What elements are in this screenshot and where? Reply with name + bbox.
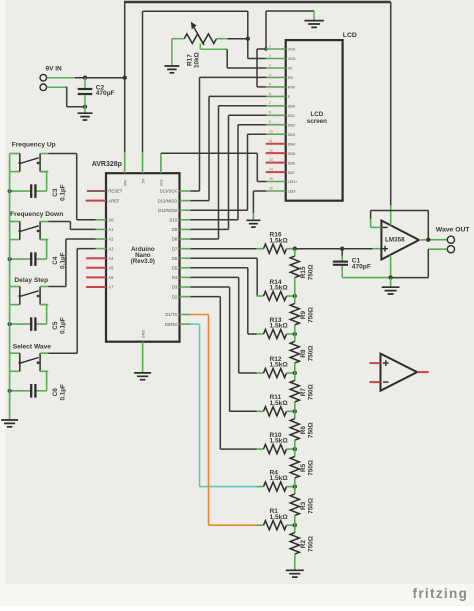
svg-text:A0: A0 <box>108 218 114 223</box>
wire R2 to ground <box>294 563 296 570</box>
svg-text:1.5kΩ: 1.5kΩ <box>270 400 289 407</box>
U1 pin 3V3 <box>160 153 164 186</box>
ground opamp <box>382 278 400 294</box>
wire Wave OUT ground return <box>391 249 448 277</box>
op-amp U2B (unused) <box>381 354 418 391</box>
svg-text:DB7: DB7 <box>288 171 295 175</box>
svg-text:D9: D9 <box>172 227 178 232</box>
LCD pin 13 DB6 <box>266 158 295 165</box>
U1 pin D1/TX <box>165 312 190 317</box>
svg-text:LM358: LM358 <box>385 237 405 244</box>
junction R12/rail <box>293 371 297 375</box>
svg-text:R8: R8 <box>300 349 307 358</box>
svg-text:A7: A7 <box>108 285 114 290</box>
U1 pin RESET <box>87 189 123 194</box>
svg-text:D13/SCK: D13/SCK <box>160 189 178 194</box>
wire S1 to A0 <box>48 154 95 220</box>
U1 pin D9 <box>172 227 190 232</box>
U1 pin D7 <box>172 246 190 251</box>
U2B pin 7 (n/c) <box>417 371 429 373</box>
svg-text:AVR328p: AVR328p <box>92 161 122 168</box>
capacitor C1 470pF <box>333 249 371 278</box>
LCD pin 16 LED- <box>266 186 297 193</box>
resistor R1 1.5k <box>257 508 295 530</box>
LCD pin 12 DB5 <box>266 149 295 156</box>
svg-text:E: E <box>288 95 291 99</box>
ground U1 <box>134 373 151 380</box>
resistor R5 750 <box>290 449 314 487</box>
svg-text:LED+: LED+ <box>288 180 298 184</box>
wire D10 to LCD DB2 <box>190 125 266 220</box>
svg-text:750Ω: 750Ω <box>308 498 315 514</box>
wire D6 to R14 <box>190 258 257 296</box>
wire LCD VSS to ground <box>266 11 314 49</box>
svg-text:0.1µF: 0.1µF <box>59 384 66 401</box>
svg-text:16: 16 <box>269 186 273 190</box>
wire D2 to R10 <box>190 297 256 450</box>
junction R11/rail <box>293 409 297 413</box>
wire 9V+ to VIN rail <box>47 77 125 79</box>
svg-text:DB3: DB3 <box>288 133 295 137</box>
svg-text:R6: R6 <box>300 426 307 435</box>
ground button rail <box>1 420 18 427</box>
svg-text:D4: D4 <box>172 275 178 280</box>
wire D12 to LCD E <box>190 96 266 200</box>
resistor R14 1.5k <box>257 279 295 301</box>
junction R4/rail <box>293 484 297 488</box>
U1 pin D2 <box>172 294 190 299</box>
U1 pin A2 <box>96 237 114 242</box>
svg-text:750Ω: 750Ω <box>308 422 315 438</box>
pushbutton S3 Delay Step <box>10 277 49 305</box>
junction R10/rail <box>293 447 297 451</box>
junction 5V/R17 <box>246 37 250 41</box>
svg-text:Wave OUT: Wave OUT <box>436 226 471 233</box>
svg-text:3V3: 3V3 <box>160 180 164 187</box>
wire S2 to A1 <box>48 222 95 230</box>
resistor R3 750 <box>290 487 314 526</box>
svg-text:2: 2 <box>269 54 271 58</box>
svg-text:R2: R2 <box>300 540 307 549</box>
U1 pin D8 <box>172 237 190 242</box>
LCD pin 11 DB4 <box>266 139 295 146</box>
potentiometer R17 10k <box>172 22 248 68</box>
junction R14/rail <box>293 294 297 298</box>
wire feedback loop <box>371 211 429 240</box>
capacitor C5 0.1uF <box>10 305 67 334</box>
svg-text:D0/RX: D0/RX <box>165 322 178 327</box>
svg-text:DB4: DB4 <box>288 142 295 146</box>
svg-text:fritzing: fritzing <box>413 586 469 601</box>
capacitor C4 0.1uF <box>10 240 67 269</box>
resistor R7 750 <box>290 373 314 411</box>
svg-text:10kΩ: 10kΩ <box>193 52 200 68</box>
svg-text:14: 14 <box>269 168 273 172</box>
junction 9V+/C2 <box>83 76 87 80</box>
svg-text:D7: D7 <box>172 246 178 251</box>
wire VSS / RW tie <box>257 49 266 87</box>
svg-text:Frequency Down: Frequency Down <box>10 211 63 218</box>
svg-text:1.5kΩ: 1.5kΩ <box>270 438 289 445</box>
resistor R15 750 <box>290 249 314 296</box>
U1 pin D12/MISO <box>158 198 191 203</box>
LCD pin 8 DB1 <box>266 111 295 118</box>
svg-text:RS: RS <box>288 76 294 80</box>
svg-text:470µF: 470µF <box>96 90 115 97</box>
svg-text:750Ω: 750Ω <box>308 307 315 323</box>
svg-text:1.5kΩ: 1.5kΩ <box>270 285 289 292</box>
svg-text:5: 5 <box>269 82 271 86</box>
resistor R6 750 <box>290 411 314 449</box>
junction R16/rail <box>293 247 297 251</box>
svg-text:VIN: VIN <box>124 180 128 187</box>
wire opamp V+ pin <box>390 205 392 226</box>
resistor R9 750 <box>290 296 314 334</box>
svg-text:13: 13 <box>269 158 273 162</box>
svg-text:750Ω: 750Ω <box>308 384 315 400</box>
svg-text:R9: R9 <box>300 310 307 319</box>
svg-text:C3: C3 <box>52 188 59 197</box>
ground R17 <box>164 39 179 73</box>
svg-text:750Ω: 750Ω <box>308 460 315 476</box>
svg-text:A2: A2 <box>108 237 114 242</box>
LCD pin 7 DB0 <box>266 101 295 108</box>
svg-text:AREF: AREF <box>108 198 120 203</box>
svg-text:R15: R15 <box>300 266 307 278</box>
resistor R10 1.5k <box>257 432 295 454</box>
svg-text:DB2: DB2 <box>288 123 295 127</box>
svg-text:5V: 5V <box>141 178 145 183</box>
resistor R2 750 <box>290 525 314 563</box>
svg-text:Delay Step: Delay Step <box>14 277 48 284</box>
wire LCD LED- to ground <box>253 191 266 220</box>
svg-text:7: 7 <box>269 101 271 105</box>
resistor R16 1.5k <box>257 232 295 254</box>
svg-text:DB6: DB6 <box>288 161 295 165</box>
svg-text:1.5kΩ: 1.5kΩ <box>270 514 289 521</box>
pushbutton S4 Select Wave <box>10 343 52 371</box>
junction 9V+/VIN <box>123 76 127 80</box>
svg-text:D11/MOSI: D11/MOSI <box>158 208 177 213</box>
svg-text:R7: R7 <box>300 388 307 397</box>
svg-text:750Ω: 750Ω <box>308 264 315 280</box>
LCD pin 3 V0 <box>266 63 293 70</box>
LCD pin 1 VSS <box>266 44 296 51</box>
svg-text:C4: C4 <box>52 256 59 265</box>
svg-text:9V IN: 9V IN <box>46 65 63 72</box>
wire DAC output row <box>295 248 342 250</box>
junction R13/rail <box>293 332 297 336</box>
svg-text:3: 3 <box>269 63 271 67</box>
svg-text:D10: D10 <box>170 218 178 223</box>
U1 pin A7 <box>86 285 114 290</box>
svg-text:A3: A3 <box>108 246 114 251</box>
svg-text:1: 1 <box>269 44 271 48</box>
U1 pin VIN <box>124 152 128 186</box>
junction VSS tie <box>264 47 268 51</box>
svg-text:15: 15 <box>269 177 273 181</box>
U1 pin D11/MOSI <box>158 208 190 213</box>
resistor R13 1.5k <box>257 317 295 339</box>
svg-text:C5: C5 <box>52 321 59 330</box>
svg-text:4: 4 <box>269 73 271 77</box>
junction C1 tap <box>340 247 344 251</box>
svg-text:LED-: LED- <box>288 190 297 194</box>
junction rail/C3 <box>8 189 12 193</box>
U1 pin A1 <box>96 227 114 232</box>
svg-text:A5: A5 <box>108 266 114 271</box>
svg-text:screen: screen <box>307 118 327 125</box>
wire S4 to A3 <box>48 249 95 354</box>
U1 pin A3 <box>96 246 114 251</box>
LCD pin 2 VDD <box>266 54 296 61</box>
svg-text:R5: R5 <box>300 463 307 472</box>
svg-text:RESET: RESET <box>108 189 122 194</box>
svg-text:D2: D2 <box>172 294 178 299</box>
ground LCD VSS <box>304 21 323 28</box>
svg-text:LCD: LCD <box>343 32 357 39</box>
svg-text:6: 6 <box>269 92 271 96</box>
svg-text:DB0: DB0 <box>288 105 295 109</box>
U1 pin D10 <box>170 218 191 223</box>
svg-text:VSS: VSS <box>288 48 296 52</box>
svg-text:1.5kΩ: 1.5kΩ <box>270 362 289 369</box>
LCD pin 4 RS <box>266 73 294 80</box>
U1 pin GND <box>141 330 145 373</box>
U1 pin A0 <box>96 218 114 223</box>
svg-text:D5: D5 <box>172 266 178 271</box>
junction R1/rail <box>293 523 297 527</box>
U1 pin A6 <box>86 275 114 280</box>
resistor R4 1.5k <box>257 470 295 492</box>
junction rail/C5 <box>8 322 12 326</box>
svg-text:750Ω: 750Ω <box>308 346 315 362</box>
LCD pin 14 DB7 <box>266 168 295 175</box>
svg-text:D8: D8 <box>172 237 178 242</box>
U1 pin D0/RX <box>165 322 190 327</box>
svg-text:A1: A1 <box>108 227 114 232</box>
svg-text:V0: V0 <box>288 67 293 71</box>
wire C1 to opamp ground <box>342 277 390 279</box>
U1 pin D5 <box>172 266 190 271</box>
svg-text:DB1: DB1 <box>288 114 295 118</box>
junction rail/C4 <box>8 257 12 261</box>
wire opamp V- pin <box>390 255 392 278</box>
ground C2 <box>78 107 93 120</box>
wire R17 wiper to LCD V0 <box>200 44 266 69</box>
junction 9V-/C2 <box>83 105 87 109</box>
connector Wave OUT <box>436 226 471 252</box>
svg-text:0.1µF: 0.1µF <box>59 184 66 201</box>
U1 pin D6 <box>172 256 190 261</box>
ground LED- <box>246 220 260 227</box>
wire D11 to LCD DB3 <box>190 134 266 210</box>
svg-text:R/W: R/W <box>288 86 296 90</box>
svg-text:8: 8 <box>269 111 271 115</box>
U2B pin 6 (n/c) <box>370 381 381 383</box>
Arduino Nano U1 AVR328p <box>92 161 180 342</box>
svg-text:D1/TX: D1/TX <box>165 312 177 317</box>
wire D1/TX to R1 (orange) <box>190 315 256 526</box>
wire 5V rail <box>143 11 248 152</box>
LCD pin 15 LED+ <box>266 177 298 184</box>
U2B pin 5 (n/c) <box>370 362 381 364</box>
svg-text:A6: A6 <box>108 275 114 280</box>
svg-text:D6: D6 <box>172 256 178 261</box>
wire button ground rail <box>9 154 11 420</box>
svg-text:VDD: VDD <box>288 57 296 61</box>
capacitor C3 0.1uF <box>10 172 67 201</box>
LCD screen module <box>286 32 357 201</box>
svg-text:12: 12 <box>269 149 273 153</box>
wire D8 to LCD DB0 <box>190 106 266 239</box>
U1 pin D4 <box>172 275 190 280</box>
svg-text:(Rev3.0): (Rev3.0) <box>131 258 155 265</box>
svg-text:R3: R3 <box>300 501 307 510</box>
U1 pin A4 <box>86 256 114 261</box>
junction opamp ground <box>388 275 392 279</box>
svg-text:750Ω: 750Ω <box>308 536 315 552</box>
svg-text:R17: R17 <box>186 54 193 66</box>
wire D5 to R13 <box>190 268 256 334</box>
U1 pin D3 <box>172 285 190 290</box>
svg-text:C6: C6 <box>52 388 59 397</box>
svg-text:10: 10 <box>269 130 273 134</box>
LCD pin 5 R/W <box>266 82 296 89</box>
wire D9 to LCD DB1 <box>190 115 266 229</box>
junction output/feedback <box>426 238 430 242</box>
resistor R8 750 <box>290 334 314 373</box>
svg-text:11: 11 <box>269 139 273 143</box>
wire 3V3 to LCD LED+ <box>161 153 266 181</box>
U1 pin D13/SCK <box>160 189 191 194</box>
svg-text:D3: D3 <box>172 285 178 290</box>
svg-text:0.1µF: 0.1µF <box>59 317 66 334</box>
LCD pin 6 E <box>266 92 291 99</box>
U1 pin A5 <box>86 266 114 271</box>
U1 pin 5V <box>141 152 145 183</box>
resistor R12 1.5k <box>257 356 295 378</box>
wire 5V to LCD VDD <box>248 39 266 59</box>
svg-text:DB5: DB5 <box>288 152 295 156</box>
svg-text:Frequency Up: Frequency Up <box>12 141 56 148</box>
svg-text:1.5kΩ: 1.5kΩ <box>270 475 289 482</box>
wire VIN 9V rail (top) <box>124 2 391 205</box>
LCD pin 9 DB2 <box>266 120 295 127</box>
capacitor C2 470uF <box>78 78 115 107</box>
svg-text:GND: GND <box>141 330 145 339</box>
wire 9V- return <box>47 87 85 107</box>
capacitor C6 0.1uF <box>10 371 67 400</box>
wire to opamp + input <box>342 248 381 250</box>
connector J1 9V IN <box>40 65 62 90</box>
LCD pin 10 DB3 <box>266 130 295 137</box>
wire D4 to R12 <box>190 277 256 373</box>
resistor R11 1.5k <box>257 394 295 416</box>
svg-text:D12/MISO: D12/MISO <box>158 198 178 203</box>
svg-text:1.5kΩ: 1.5kΩ <box>270 237 289 244</box>
svg-text:9: 9 <box>269 120 271 124</box>
svg-text:Select Wave: Select Wave <box>13 343 52 350</box>
wire S3 to A2 <box>48 239 95 287</box>
wire opamp output <box>419 239 447 241</box>
ground ladder <box>286 570 304 577</box>
wire D3 to R11 <box>190 287 256 411</box>
wire D13 to LCD RS <box>190 77 266 191</box>
pushbutton S1 Frequency Up <box>10 141 56 171</box>
junction rail/C6 <box>8 389 12 393</box>
svg-text:1.5kΩ: 1.5kΩ <box>270 323 289 330</box>
pushbutton S2 Frequency Down <box>10 211 64 240</box>
U1 pin AREF <box>86 198 120 203</box>
op-amp U2A LM358 <box>381 221 419 260</box>
svg-text:470pF: 470pF <box>352 264 371 271</box>
wire D0/RX to R4 (cyan) <box>190 324 256 487</box>
wire D7 to R16 <box>190 248 256 250</box>
svg-text:A4: A4 <box>108 256 114 261</box>
